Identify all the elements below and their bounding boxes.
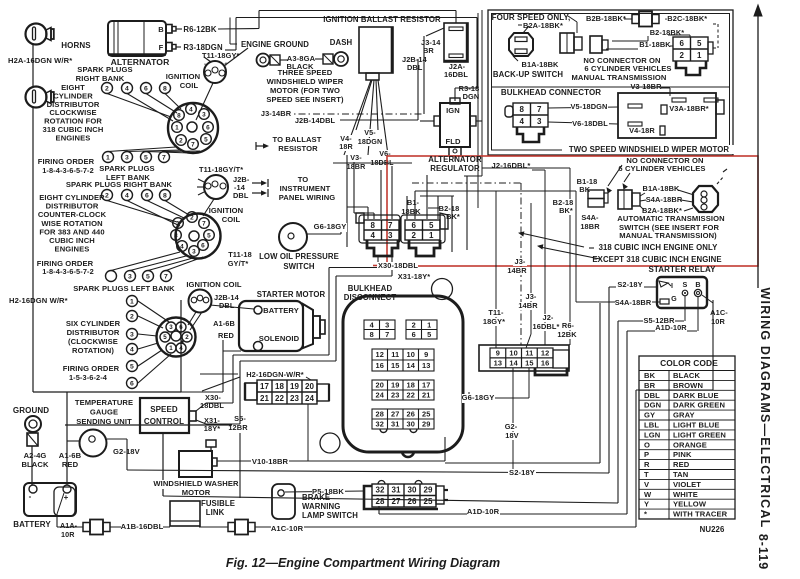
svg-text:7: 7 <box>191 141 195 148</box>
svg-text:26: 26 <box>407 497 417 506</box>
wire V10-18BR <box>217 460 445 462</box>
svg-text:FIRING ORDER: FIRING ORDER <box>38 157 95 166</box>
label G6-18GY (switch) <box>314 223 347 232</box>
svg-text:4: 4 <box>125 85 129 92</box>
svg-text:X30-18DBL: X30-18DBL <box>378 261 418 270</box>
svg-text:2: 2 <box>411 231 416 240</box>
bulkhead disconnect outline <box>343 296 463 452</box>
label S4A-18BR (main) <box>646 196 683 204</box>
svg-text:COLOR CODE: COLOR CODE <box>660 358 718 368</box>
svg-text:RED: RED <box>673 460 690 469</box>
svg-text:R6-: R6- <box>562 321 575 330</box>
svg-text:I: I <box>671 281 673 290</box>
label J2-16DBL* <box>490 162 532 171</box>
svg-text:18DBL: 18DBL <box>200 401 224 410</box>
svg-text:9: 9 <box>496 349 500 358</box>
wire V5-18DGN (insert) <box>548 107 618 108</box>
svg-text:S4A-: S4A- <box>581 213 599 222</box>
label T11-18GY* (connector) <box>487 309 505 317</box>
svg-text:IGN: IGN <box>446 106 460 115</box>
red highlight box <box>387 156 758 266</box>
svg-text:SIX CYLINDER: SIX CYLINDER <box>66 319 121 328</box>
disconnect grid 28 27 26 25 / 32 31 30 29 <box>372 409 434 429</box>
svg-text:TO BALLAST: TO BALLAST <box>273 135 322 144</box>
brake warning lamp switch <box>272 484 295 519</box>
harness verticals <box>477 13 479 208</box>
disconnect grid 4 3 / 8 7 <box>364 320 395 339</box>
wire H2-16DGN diagonal to horn feed <box>202 377 240 391</box>
svg-text:S4A-18BR: S4A-18BR <box>615 298 652 307</box>
svg-text:SPEED: SPEED <box>150 405 178 414</box>
label J3-14BR (red box) <box>513 258 527 266</box>
svg-text:B1A-18BK: B1A-18BK <box>522 60 560 69</box>
svg-text:18: 18 <box>275 382 285 391</box>
svg-text:4: 4 <box>125 192 129 199</box>
svg-text:V10-18BR: V10-18BR <box>252 457 289 466</box>
svg-text:B1-: B1- <box>407 198 420 207</box>
wire J2B-14DBL horizontal <box>340 119 418 121</box>
distributor 2 (eight cylinder counter-clockwise) <box>176 214 221 259</box>
ignition coil 1 <box>204 61 226 83</box>
svg-text:21: 21 <box>422 391 430 400</box>
label B1A-18BK (main) <box>643 185 680 193</box>
svg-text:26: 26 <box>407 410 415 419</box>
svg-text:G6-18GY: G6-18GY <box>462 393 495 402</box>
back-up switch octagon <box>509 33 533 56</box>
svg-text:ORANGE: ORANGE <box>673 440 707 449</box>
label B2-18 BK* (mid2) <box>552 199 575 207</box>
svg-text:T11-18: T11-18 <box>228 250 252 259</box>
svg-text:LIGHT GREEN: LIGHT GREEN <box>673 430 726 439</box>
svg-text:T11-18GY*: T11-18GY* <box>202 51 239 60</box>
svg-text:X31-18Y*: X31-18Y* <box>398 272 430 281</box>
svg-text:32: 32 <box>375 486 385 495</box>
svg-text:V5-: V5- <box>364 128 376 137</box>
battery <box>24 483 76 516</box>
temperature gauge sending unit <box>80 430 107 457</box>
label X31-18Y* (bulkhead) <box>396 273 433 281</box>
six cylinder insert box <box>33 391 181 393</box>
svg-text:MOTOR (FOR TWO: MOTOR (FOR TWO <box>270 86 340 95</box>
wire R6-12BK vertical (right) <box>482 167 570 169</box>
inline connector 2 (A1C) <box>228 523 235 532</box>
svg-text:27: 27 <box>391 410 399 419</box>
spark plug circles 2 4 6 8 (row 1) <box>102 83 113 94</box>
svg-text:LBL: LBL <box>644 421 659 430</box>
svg-text:SPEED SEE INSERT): SPEED SEE INSERT) <box>266 95 344 104</box>
svg-text:18Y*: 18Y* <box>204 424 220 433</box>
wire V6-18DBL (insert) <box>548 122 618 124</box>
svg-text:18R: 18R <box>339 142 353 151</box>
svg-text:2: 2 <box>190 214 194 221</box>
svg-text:BLACK: BLACK <box>21 460 48 469</box>
svg-text:J2B-14DBL: J2B-14DBL <box>295 116 336 125</box>
svg-text:IGNITION: IGNITION <box>209 206 244 215</box>
svg-text:TAN: TAN <box>673 470 688 479</box>
svg-text:V4-18R: V4-18R <box>629 126 655 135</box>
svg-text:13: 13 <box>494 359 502 368</box>
svg-text:3: 3 <box>388 231 393 240</box>
label P5-18BK <box>312 488 345 497</box>
svg-text:DBL: DBL <box>233 191 249 200</box>
svg-text:8: 8 <box>370 221 375 230</box>
svg-text:12: 12 <box>541 349 549 358</box>
label R6-12BK (connector) <box>561 322 575 330</box>
svg-text:B2-18BK*: B2-18BK* <box>650 28 685 37</box>
fusible link box <box>170 501 200 526</box>
label V4-18R (insert) <box>628 127 656 135</box>
svg-text:3: 3 <box>385 320 389 329</box>
svg-text:*: * <box>644 510 647 519</box>
ignition coil 3 <box>189 290 212 313</box>
label J3-14BR (mid) <box>260 110 292 118</box>
svg-text:14: 14 <box>407 361 416 370</box>
alternator voltage regulator IGN/FLD <box>440 103 470 147</box>
svg-text:AUTOMATIC TRANSMISSION: AUTOMATIC TRANSMISSION <box>617 214 724 223</box>
svg-text:27: 27 <box>391 497 401 506</box>
svg-text:HORNS: HORNS <box>61 41 91 50</box>
svg-text:BATTERY: BATTERY <box>263 306 299 315</box>
svg-text:14BR: 14BR <box>518 301 538 310</box>
svg-text:TEMPERATURE: TEMPERATURE <box>75 398 133 407</box>
svg-text:5: 5 <box>697 39 702 48</box>
svg-text:WINDSHIELD WIPER: WINDSHIELD WIPER <box>267 77 344 86</box>
svg-text:1: 1 <box>175 124 179 131</box>
label J2B-14DBL (mid) <box>294 117 335 125</box>
wires from regulator tabs <box>420 120 434 122</box>
svg-text:B: B <box>695 280 700 289</box>
label V6-18DBL <box>378 150 391 158</box>
wire A1C-10R long run <box>255 526 636 528</box>
disconnect grid 20 19 18 17 / 24 23 22 21 <box>372 380 434 400</box>
svg-text:8-119: 8-119 <box>756 534 770 570</box>
svg-text:WHITE: WHITE <box>673 490 698 499</box>
svg-text:SWITCH: SWITCH <box>283 262 315 271</box>
svg-text:Y: Y <box>644 500 649 509</box>
svg-text:20: 20 <box>305 382 315 391</box>
svg-text:RIGHT BANK: RIGHT BANK <box>76 74 125 83</box>
horn 1 (upper) <box>26 24 47 45</box>
svg-text:ENGINES: ENGINES <box>56 133 91 142</box>
svg-text:BLACK: BLACK <box>673 371 700 380</box>
svg-text:G: G <box>671 294 677 303</box>
wire B2A to octagon <box>523 26 529 33</box>
svg-text:7: 7 <box>537 105 542 114</box>
svg-text:5: 5 <box>146 273 150 280</box>
svg-text:+: + <box>64 493 69 502</box>
svg-text:3: 3 <box>169 324 173 331</box>
svg-text:18BR: 18BR <box>580 222 600 231</box>
svg-text:LAMP SWITCH: LAMP SWITCH <box>302 511 358 520</box>
svg-text:B1A-18BK: B1A-18BK <box>643 184 681 193</box>
label X30-18DBL (bulkhead) <box>377 262 418 270</box>
wire J2-16DBL vertical <box>544 170 546 345</box>
svg-text:YELLOW: YELLOW <box>673 500 707 509</box>
svg-text:BK: BK <box>644 371 656 380</box>
svg-text:SPARK PLUGS: SPARK PLUGS <box>77 65 132 74</box>
svg-text:DASH: DASH <box>330 38 353 47</box>
svg-text:8: 8 <box>163 192 167 199</box>
svg-text:23: 23 <box>290 394 300 403</box>
svg-text:BK*: BK* <box>559 206 573 215</box>
svg-text:P: P <box>644 450 649 459</box>
wire FOUR SPEED ONLY to B2B <box>568 16 577 22</box>
label S4A-18BR (relay) <box>615 299 652 307</box>
low oil pressure switch <box>279 223 307 251</box>
svg-text:5: 5 <box>130 363 134 370</box>
svg-text:30: 30 <box>407 420 415 429</box>
svg-text:4: 4 <box>189 106 193 113</box>
svg-text:4: 4 <box>179 345 183 352</box>
svg-text:W: W <box>644 490 652 499</box>
svg-text:8: 8 <box>163 85 167 92</box>
wire J2B-14DBL vertical <box>417 59 419 120</box>
svg-text:5: 5 <box>204 136 208 143</box>
svg-text:16: 16 <box>376 361 384 370</box>
svg-text:Fig. 12—Engine Compartment Wir: Fig. 12—Engine Compartment Wiring Diagra… <box>226 556 500 570</box>
disconnect grid 12 11 10 9 / 16 15 14 13 <box>372 349 434 371</box>
svg-text:2: 2 <box>130 313 134 320</box>
svg-text:ENGINE GROUND: ENGINE GROUND <box>241 40 309 49</box>
svg-text:O: O <box>644 440 650 449</box>
wires row4 plugs to distributor 2 <box>111 252 180 271</box>
inline connector B2C <box>632 15 639 24</box>
wire coil2 to distributor 2 <box>203 199 214 216</box>
svg-text:6: 6 <box>411 221 416 230</box>
svg-text:J3-: J3- <box>515 257 526 266</box>
svg-text:7: 7 <box>162 154 166 161</box>
svg-text:WARNING: WARNING <box>302 502 340 511</box>
svg-text:WITH TRACER: WITH TRACER <box>673 510 728 519</box>
svg-text:6: 6 <box>412 330 416 339</box>
wire S5 from relay S terminal <box>684 296 686 321</box>
svg-text:22: 22 <box>275 394 285 403</box>
svg-text:16DBL: 16DBL <box>444 70 468 79</box>
svg-text:16DBL*: 16DBL* <box>533 322 560 331</box>
label A1D-10R (long wire) <box>467 508 500 517</box>
wire A1-6B battery positive up <box>66 392 68 485</box>
connector grid 6 5 / 2 1 (insert) <box>673 37 708 61</box>
svg-text:B1-18BK: B1-18BK <box>639 40 671 49</box>
svg-text:3: 3 <box>125 154 129 161</box>
svg-text:2: 2 <box>185 334 189 341</box>
distributor 1 (eight cylinder clockwise) <box>168 103 218 153</box>
wire A1D from relay B terminal <box>697 297 699 331</box>
ground lug symbol <box>25 416 41 432</box>
svg-text:6: 6 <box>130 380 134 387</box>
svg-text:15: 15 <box>525 359 533 368</box>
svg-text:EXCEPT 318 CUBIC INCH ENGI: EXCEPT 318 CUBIC INCH ENGINE <box>592 255 721 264</box>
label S5-12BR (relay) <box>643 317 675 325</box>
svg-text:A1C-10R: A1C-10R <box>271 524 304 533</box>
wire H2A-16DGN from horns down left side <box>32 45 34 87</box>
svg-text:24: 24 <box>376 391 385 400</box>
svg-text:A1-6B: A1-6B <box>59 451 82 460</box>
bulkhead connector grid 8 7 / 4 3 (insert) <box>513 103 548 127</box>
svg-text:RED: RED <box>218 331 234 340</box>
svg-text:V3A-18BR*: V3A-18BR* <box>669 104 709 113</box>
svg-text:V5-18DGN: V5-18DGN <box>571 102 608 111</box>
svg-text:6: 6 <box>206 124 210 131</box>
label V3A-18BR* (insert) <box>668 105 709 113</box>
svg-text:3: 3 <box>130 331 134 338</box>
svg-text:G2-: G2- <box>505 422 518 431</box>
svg-text:H2A-16DGN W/R*: H2A-16DGN W/R* <box>8 56 72 65</box>
svg-text:ENGINES: ENGINES <box>55 245 90 254</box>
ignition ballast resistor <box>359 27 393 73</box>
svg-text:R: R <box>644 460 650 469</box>
svg-text:V6-18DBL: V6-18DBL <box>572 119 608 128</box>
svg-text:SPARK PLUGS RIGHT BANK: SPARK PLUGS RIGHT BANK <box>66 180 173 189</box>
svg-text:29: 29 <box>422 420 430 429</box>
svg-text:1: 1 <box>130 298 134 305</box>
svg-text:GRAY: GRAY <box>673 411 695 420</box>
svg-text:1: 1 <box>169 345 173 352</box>
engine ground symbol <box>257 54 270 67</box>
horn 2 (lower) <box>26 87 47 108</box>
wire S5-12BR bottom run <box>163 496 618 503</box>
svg-text:T: T <box>644 470 649 479</box>
wire from connector 24 down to V10 run <box>307 404 309 461</box>
label A1C-10R <box>271 525 304 534</box>
svg-text:DARK BLUE: DARK BLUE <box>673 391 719 400</box>
svg-text:5: 5 <box>163 334 167 341</box>
svg-text:10: 10 <box>509 349 517 358</box>
svg-text:J3-14BR: J3-14BR <box>261 109 292 118</box>
svg-text:RED: RED <box>62 460 79 469</box>
label BULKHEAD DISCONNECT <box>351 284 390 293</box>
svg-text:14BR: 14BR <box>507 266 527 275</box>
wire R6-12BK from alternator B <box>176 28 182 30</box>
wire S4A-18BR vertical <box>575 191 577 302</box>
svg-text:IGNITION BALLAST RESISTOR: IGNITION BALLAST RESISTOR <box>323 15 441 24</box>
starter motor <box>239 301 303 351</box>
label S2-18Y (relay) <box>616 281 644 289</box>
svg-text:30: 30 <box>407 486 417 495</box>
wire G2-18V to connector 14 <box>512 368 514 471</box>
svg-text:23: 23 <box>391 391 399 400</box>
wire J3-14BR dash-dot vertical <box>520 183 522 345</box>
svg-text:V: V <box>644 480 650 489</box>
wire T11-18GY vertical <box>495 191 497 348</box>
svg-text:4: 4 <box>519 117 524 126</box>
svg-text:24: 24 <box>305 394 315 403</box>
svg-text:MANUAL TRANSMISSION: MANUAL TRANSMISSION <box>572 73 667 82</box>
svg-text:A1D-10R: A1D-10R <box>467 507 500 516</box>
svg-text:17: 17 <box>422 381 430 390</box>
color code table <box>639 356 735 519</box>
svg-text:5: 5 <box>429 221 434 230</box>
svg-text:R6-12BK: R6-12BK <box>183 25 216 34</box>
svg-text:THREE SPEED: THREE SPEED <box>278 68 333 77</box>
bulkhead connector B (6 5 / 2 1) <box>401 215 445 243</box>
svg-text:F: F <box>159 43 164 52</box>
svg-text:16: 16 <box>541 359 549 368</box>
svg-text:4: 4 <box>130 346 134 353</box>
label J2-16DBL* (connector) <box>541 314 555 322</box>
svg-text:V3-18BR: V3-18BR <box>630 82 662 91</box>
svg-text:J2-16DBL*: J2-16DBL* <box>492 161 531 170</box>
svg-text:20: 20 <box>376 381 384 390</box>
svg-text:28: 28 <box>376 410 384 419</box>
svg-text:H2-16DGN W/R*: H2-16DGN W/R* <box>9 296 68 305</box>
svg-text:LOW OIL PRESSURE: LOW OIL PRESSURE <box>259 252 339 261</box>
svg-text:REGULATOR: REGULATOR <box>430 164 480 173</box>
svg-text:13: 13 <box>422 361 430 370</box>
connector B1 (mid right) <box>588 190 604 199</box>
svg-text:FLD: FLD <box>445 137 460 146</box>
wire G6-18GY to connector 15 <box>468 392 470 398</box>
svg-text:-: - <box>204 62 206 68</box>
wire A1B-16DBL <box>110 526 170 528</box>
instrument panel harness wires to bulkhead connectors <box>412 182 521 184</box>
wire speed control down to S5 run <box>162 433 164 496</box>
svg-text:2: 2 <box>179 137 183 144</box>
svg-text:12BK: 12BK <box>557 330 577 339</box>
dashed pointer to AT switch <box>717 176 724 184</box>
label G6-18GY (disconnect) <box>462 394 495 403</box>
svg-text:SPARK PLUGS: SPARK PLUGS <box>99 164 154 173</box>
svg-text:7: 7 <box>164 273 168 280</box>
svg-text:BULKHEAD: BULKHEAD <box>348 284 393 293</box>
svg-text:32: 32 <box>376 420 384 429</box>
svg-text:6: 6 <box>144 85 148 92</box>
svg-text:FUSIBLE: FUSIBLE <box>201 499 235 508</box>
svg-text:INSTRUMENT: INSTRUMENT <box>280 184 331 193</box>
svg-text:PINK: PINK <box>673 450 692 459</box>
svg-text:8: 8 <box>519 105 524 114</box>
svg-text:318 CUBIC INCH ENGINE ONLY: 318 CUBIC INCH ENGINE ONLY <box>599 243 719 252</box>
svg-text:18DGN: 18DGN <box>358 137 382 146</box>
svg-text:8: 8 <box>370 330 374 339</box>
connector (no connector note, insert right) <box>590 36 602 53</box>
label S2-18Y (long wire) <box>508 469 536 478</box>
svg-text:7: 7 <box>388 221 393 230</box>
label V3-18BR <box>349 154 362 162</box>
dash ground symbol <box>323 54 333 64</box>
svg-text:A1B-16DBL: A1B-16DBL <box>121 522 164 531</box>
svg-text:3: 3 <box>537 117 542 126</box>
spark plug circles row 4 (- 3 5 7) <box>106 271 117 282</box>
svg-text:1-8-4-3-6-5-7-2: 1-8-4-3-6-5-7-2 <box>42 166 94 175</box>
svg-text:J2-: J2- <box>543 313 554 322</box>
svg-text:28: 28 <box>375 497 385 506</box>
wire A1D-10R bottom run <box>378 506 380 514</box>
connector 32-25 engine side (lower) <box>372 484 436 507</box>
svg-text:NU226: NU226 <box>700 525 725 534</box>
windshield washer motor <box>179 451 212 477</box>
svg-text:GAUGE: GAUGE <box>90 408 118 417</box>
svg-text:1: 1 <box>176 220 180 227</box>
spark plug circles 2 4 6 8 (row 3) <box>102 190 113 201</box>
svg-text:1: 1 <box>429 231 434 240</box>
wire coil1 to T11-18GY* <box>204 57 211 62</box>
svg-text:LINK: LINK <box>206 508 225 517</box>
svg-text:12: 12 <box>376 350 384 359</box>
svg-text:17: 17 <box>260 382 270 391</box>
spark plug circles 1-6 (six cylinder) <box>127 296 138 307</box>
disconnect bottom left circle <box>320 433 340 453</box>
svg-text:21: 21 <box>260 394 270 403</box>
svg-text:6 CYLINDER VEHICLES: 6 CYLINDER VEHICLES <box>584 64 671 73</box>
wire coil1 tower to distributor 1 center <box>196 83 213 120</box>
dashed wire B2C to grid <box>713 23 718 25</box>
svg-text:WINDSHIELD WASHER: WINDSHIELD WASHER <box>153 479 239 488</box>
svg-text:VIOLET: VIOLET <box>673 480 701 489</box>
automatic transmission switch octagon <box>693 186 718 212</box>
svg-text:2: 2 <box>679 51 684 60</box>
svg-text:10R: 10R <box>711 317 725 326</box>
